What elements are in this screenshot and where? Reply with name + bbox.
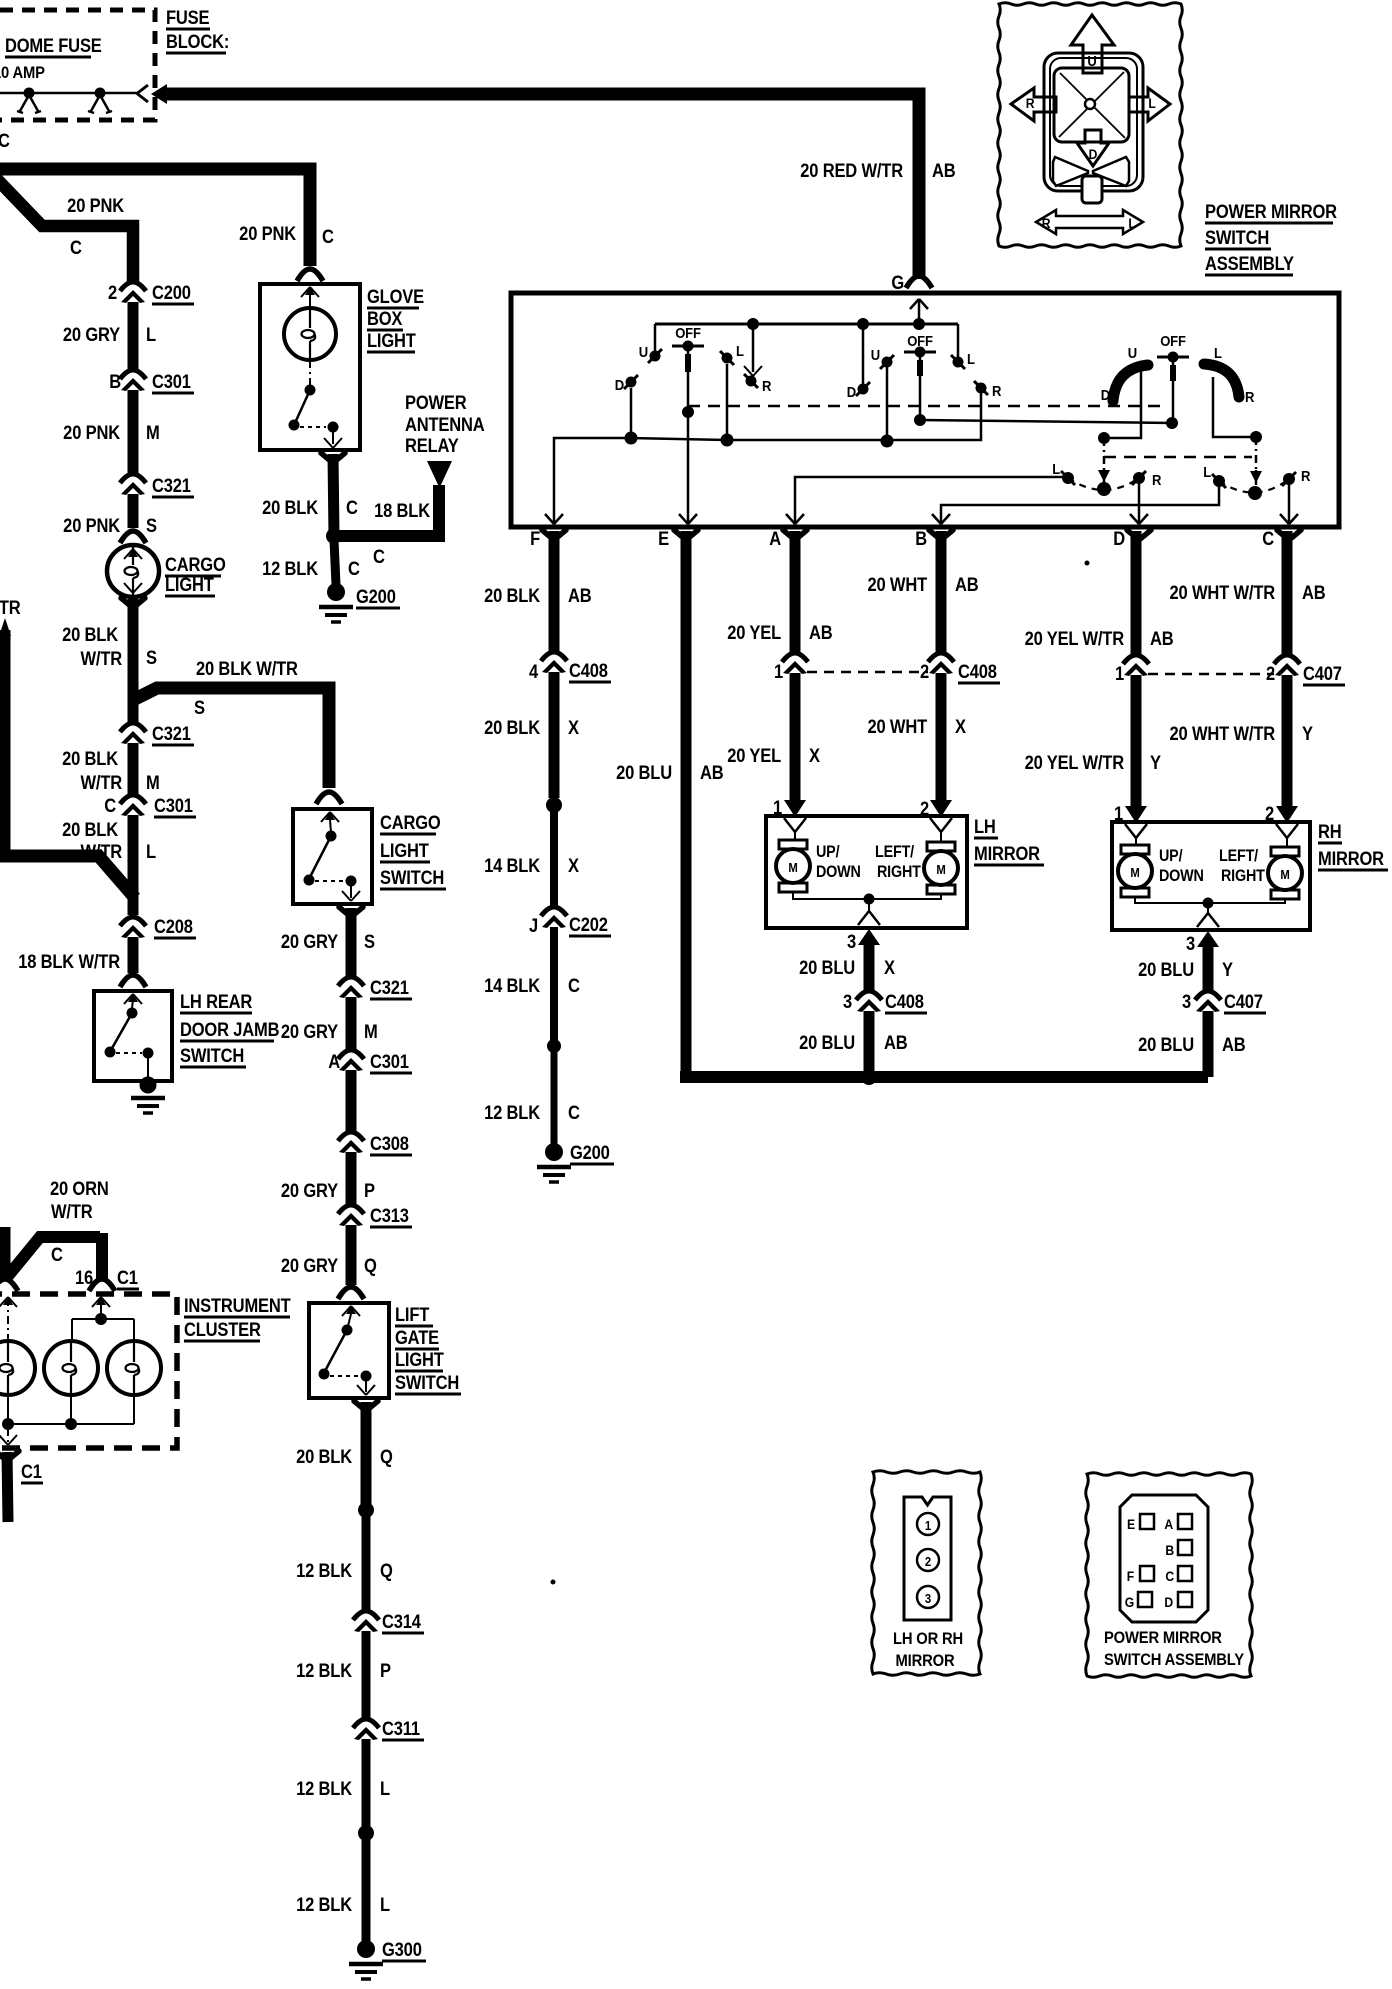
svg-text:L: L [1214,344,1222,361]
svg-text:R: R [1301,467,1310,484]
svg-text:SWITCH: SWITCH [180,1045,244,1066]
feed dot R1 [744,318,762,376]
label 20 BLK X [484,717,579,738]
label 12 BLK L [296,1778,390,1799]
svg-text:A: A [1164,1516,1173,1532]
svg-text:3: 3 [847,931,856,952]
pictorial mirror bowtie [1053,157,1129,203]
svg-text:W/TR: W/TR [80,648,122,669]
G feed arrow inside box [910,299,928,324]
svg-text:Q: Q [364,1255,377,1276]
svg-text:F: F [1127,1568,1134,1584]
svg-text:BOX: BOX [367,308,403,329]
RH motor left/right [1268,838,1302,899]
wiper OFF2 [914,352,926,426]
junction dot glove/relay [326,528,342,544]
svg-text:G200: G200 [570,1142,610,1163]
LH mirror pin funnels [784,818,952,832]
wire selector2 R to C [1280,483,1298,524]
label CARGO LIGHT SWITCH [380,812,446,889]
svg-text:L: L [736,342,744,359]
svg-text:C321: C321 [152,475,191,496]
svg-text:UP/: UP/ [1159,847,1183,865]
svg-text:M: M [936,862,945,877]
svg-text:ASSEMBLY: ASSEMBLY [1205,253,1294,274]
label C (left edge) [0,130,10,151]
label UP/DOWN (RH) [1159,847,1204,885]
svg-text:20 BLK: 20 BLK [484,717,540,738]
wire 20 BLK W/TR L [128,815,139,915]
mech dashed line upper [688,405,1166,408]
svg-text:C301: C301 [154,795,193,816]
svg-text:C301: C301 [370,1051,409,1072]
wire selector2 L to B [932,485,1219,524]
wire below C301 [346,1070,357,1132]
partial circle left edge [0,1243,4,1281]
LH pin3 wire lower [864,1011,875,1071]
label R3 [1245,388,1254,405]
label 20 BLK C [262,497,358,518]
svg-text:U: U [639,343,648,360]
selector1 dashed arc [1068,478,1139,490]
wire 12 BLK L lower [362,1837,371,1943]
svg-text:20 ORN: 20 ORN [50,1178,109,1199]
wire 20 GRY M (switch) [346,997,357,1050]
svg-text:C: C [104,795,116,816]
connector C202 [529,907,611,936]
label C1 below cluster [21,1461,43,1483]
wiper OFF3 [1172,357,1175,420]
wire U2 to bus [886,366,889,441]
label 20 GRY Q [281,1255,377,1276]
svg-text:C: C [0,130,10,151]
label W/TR (left edge) [0,597,21,618]
svg-text:C408: C408 [885,991,924,1012]
label 3 (LH) [847,931,856,952]
svg-text:S: S [146,647,157,668]
LH mirror box [766,816,967,928]
svg-text:C: C [51,1244,63,1265]
wire 20 YEL W/TR Y [1125,675,1147,823]
svg-text:C314: C314 [382,1611,421,1632]
svg-text:C200: C200 [152,282,191,303]
svg-text:20 WHT W/TR: 20 WHT W/TR [1170,723,1276,744]
svg-text:INSTRUMENT: INSTRUMENT [184,1295,291,1316]
svg-text:OFF: OFF [907,332,933,349]
label C (upper) [70,237,82,258]
glove box light box [260,284,360,450]
RH motor commons [1135,897,1285,927]
svg-text:MIRROR: MIRROR [896,1652,956,1670]
label U3 [1128,344,1137,361]
wire 20 BLK AB (F) [549,531,560,652]
svg-text:D: D [847,383,856,400]
svg-text:1: 1 [925,1518,931,1533]
svg-text:RH: RH [1318,821,1342,842]
instrument cluster dashed box [0,1294,177,1448]
connector C301 switch col [328,1050,412,1073]
svg-text:LEFT/: LEFT/ [875,843,915,861]
label 20 YEL W/TR Y [1025,752,1162,773]
label UP/DOWN [816,843,861,881]
label 20 BLU AB (RH3) [1138,1034,1246,1055]
selector2 dashed arc [1219,479,1289,493]
svg-text:LIFT: LIFT [395,1304,429,1325]
stub A at switch box [769,528,807,549]
label 20 BLU X [799,957,895,978]
label 1 (LH pin1) [773,797,782,818]
svg-text:X: X [568,717,579,738]
stray dot [551,561,1090,1585]
label 12 BLK Q [296,1560,393,1581]
wire 20 BLK W/TR S [121,598,145,724]
label 1 (RH pin1) [1114,803,1123,824]
wire 20 RED W/TR feed [151,84,919,279]
svg-text:20 GRY: 20 GRY [281,1180,338,1201]
connector C208 [120,916,196,938]
svg-text:R: R [1026,95,1035,111]
label 20 PNK (upper) [67,195,124,216]
selector2 L contact [1203,463,1226,488]
wire to glove box light [0,169,323,281]
wire D to C407-1 [1131,531,1142,655]
label 18 BLK [374,500,430,521]
svg-text:F: F [530,528,540,549]
svg-text:AB: AB [1302,582,1326,603]
svg-text:20 WHT: 20 WHT [867,716,927,737]
cargo light bulb [107,545,159,597]
LH motor left/right [924,832,958,894]
svg-text:C1: C1 [21,1461,42,1482]
wire L1 to bus [726,364,729,440]
wire 20 BLU AB (E) [680,531,1208,1077]
label C (cluster) [51,1244,63,1265]
svg-text:10 AMP: 10 AMP [0,64,45,82]
contact U1 [639,343,662,363]
svg-text:20 BLU: 20 BLU [616,762,672,783]
label 20 BLK Q [296,1446,393,1467]
svg-text:C407: C407 [1224,991,1263,1012]
svg-text:20 PNK: 20 PNK [63,515,120,536]
feed dot G [913,318,925,330]
wire 20 BLK X [549,672,560,798]
contact R1 [744,374,771,394]
fuse tap 1 [17,88,41,114]
svg-text:LH: LH [974,816,996,837]
label CARGO LIGHT [165,554,226,596]
label 12 BLK C (glove) [262,558,360,579]
svg-text:CARGO: CARGO [165,554,226,575]
svg-text:Q: Q [380,1560,393,1581]
pictorial center pad [1054,68,1129,142]
label 14 BLK X [484,855,579,876]
svg-text:S: S [364,931,375,952]
svg-text:3: 3 [843,991,852,1012]
contact D1 [615,375,638,393]
svg-text:3: 3 [1182,991,1191,1012]
wire 20 ORN W/TR [5,1227,102,1278]
label 20 WHT W/TR Y [1170,723,1314,744]
cluster wiring bottom [0,1395,134,1445]
svg-text:C: C [1262,528,1274,549]
label 12 BLK L lower [296,1894,390,1915]
wire 12 BLK Q [362,1514,371,1610]
svg-text:SWITCH: SWITCH [395,1372,459,1393]
svg-text:14 BLK: 14 BLK [484,975,540,996]
RH pin3 wire lower [1203,1011,1214,1077]
pictorial down arrow D [1077,130,1109,166]
svg-text:MIRROR: MIRROR [974,843,1040,864]
wire 20 GRY L [128,302,139,370]
contact OFF2 [904,332,936,357]
svg-text:20 PNK: 20 PNK [239,223,296,244]
svg-text:CARGO: CARGO [380,812,441,833]
svg-text:20 BLK: 20 BLK [296,1446,352,1467]
wire 12 BLK P [362,1631,371,1718]
svg-text:C407: C407 [1303,663,1342,684]
svg-text:20 BLU: 20 BLU [799,957,855,978]
door jamb ground [131,1077,165,1114]
lift gate light switch box [309,1303,389,1398]
svg-text:C311: C311 [382,1718,420,1739]
svg-text:16: 16 [75,1267,93,1288]
wire C1 below cluster [0,1451,19,1522]
label LH REAR DOOR JAMB SWITCH [180,991,280,1067]
svg-text:2: 2 [925,1554,931,1569]
svg-text:C: C [348,558,360,579]
arc L3-R3 [1204,364,1239,397]
svg-text:20 BLK: 20 BLK [62,748,118,769]
svg-text:D: D [1089,146,1098,162]
svg-text:20 BLU: 20 BLU [1138,1034,1194,1055]
svg-text:C321: C321 [370,977,409,998]
wire 20 PNK M [128,390,139,473]
svg-text:M: M [1280,867,1289,882]
svg-text:X: X [809,745,820,766]
svg-text:P: P [380,1660,391,1681]
svg-text:20 GRY: 20 GRY [63,324,120,345]
label 2 (LH pin2) [920,798,929,819]
svg-text:OFF: OFF [1160,332,1186,349]
label 20 YEL X [727,745,820,766]
pictorial right arrow L [1129,88,1170,121]
svg-text:GLOVE: GLOVE [367,286,424,307]
label 20 GRY L [63,324,156,345]
svg-text:AB: AB [884,1032,908,1053]
wire 20 GRY S (switch) [339,907,363,977]
connector C301 lower [104,795,196,817]
label 20 BLK W/TR M [62,748,159,793]
label 20 BLU AB (E) [616,762,724,783]
connector C321 switch col [338,977,412,999]
label 14 BLK C [484,975,580,996]
svg-text:4: 4 [529,661,538,682]
label 20 PNK M [63,422,159,443]
svg-text:RELAY: RELAY [405,435,459,456]
mirror connector face [904,1497,951,1620]
label LH MIRROR [974,816,1044,865]
svg-text:S: S [194,697,205,718]
svg-text:L: L [146,841,156,862]
svg-text:R: R [1042,215,1051,231]
RH mirror pin funnels [1125,824,1298,838]
svg-text:RIGHT: RIGHT [1221,867,1265,885]
label 20 YEL W/TR AB [1025,628,1174,649]
connector C311 [353,1718,424,1740]
ground G300 [349,1939,426,1979]
svg-text:C: C [373,546,385,567]
svg-text:20 YEL: 20 YEL [727,622,781,643]
svg-text:SWITCH ASSEMBLY: SWITCH ASSEMBLY [1104,1651,1245,1669]
connector C321 lower [120,723,194,745]
svg-text:1: 1 [1115,663,1124,684]
connector C408-2 [920,653,1000,683]
wire L3 arc to pivot2 [1213,377,1262,485]
svg-text:AB: AB [700,762,724,783]
svg-text:U: U [1087,52,1096,69]
svg-text:LIGHT: LIGHT [395,1349,444,1370]
svg-text:BLOCK:: BLOCK: [166,31,229,52]
door jamb switch internals [105,994,154,1078]
svg-text:18 BLK: 18 BLK [374,500,430,521]
svg-text:20 GRY: 20 GRY [281,931,338,952]
fuse block connector chevron [137,85,148,102]
label 18 BLK W/TR [18,951,120,972]
power mirror switch pictorial box [998,3,1183,248]
svg-text:C308: C308 [370,1133,409,1154]
wire to C200 [0,174,133,283]
svg-text:C301: C301 [152,371,191,392]
label POWER MIRROR SWITCH ASSEMBLY [1205,201,1337,275]
pictorial bottom arrow R-L [1036,210,1143,234]
connector C301 [109,370,194,393]
svg-text:2: 2 [108,282,117,303]
dashed link C407 [1148,673,1274,676]
selector1 L contact [1052,460,1075,485]
svg-text:LH REAR: LH REAR [180,991,253,1012]
svg-text:DOWN: DOWN [816,863,861,881]
svg-text:C208: C208 [154,916,193,937]
junction dot F [546,797,562,813]
svg-text:R: R [992,382,1001,399]
switch connector face [1120,1495,1208,1622]
svg-text:C: C [70,237,82,258]
svg-text:L: L [967,350,975,367]
label DOME FUSE [5,35,102,57]
wire 20 BLK Q [354,1401,378,1504]
svg-text:GATE: GATE [395,1327,439,1348]
wire 20 WHT W/TR Y [1276,675,1298,823]
svg-text:R: R [1152,471,1161,488]
label 20 WHT X [867,716,966,737]
svg-text:AB: AB [1222,1034,1246,1055]
svg-text:W/TR: W/TR [0,597,21,618]
svg-text:20 YEL W/TR: 20 YEL W/TR [1025,628,1125,649]
label S (branch) [194,697,205,718]
LH motor up/down [776,832,810,892]
fuse block bus wire [0,92,137,95]
svg-text:12 BLK: 12 BLK [296,1778,352,1799]
label 20 GRY S (switch) [281,931,375,952]
wire 18 BLK W/TR [120,937,146,987]
svg-text:ANTENNA: ANTENNA [405,414,485,435]
switch connector pins [1125,1514,1192,1610]
svg-text:CLUSTER: CLUSTER [184,1319,261,1340]
svg-text:AB: AB [932,160,956,181]
svg-text:B: B [915,528,927,549]
label 20 BLU AB (LH3) [799,1032,908,1053]
svg-text:L: L [380,1894,390,1915]
svg-text:G300: G300 [382,1939,422,1960]
pictorial rounded frame [1044,53,1143,191]
wire 14 BLK X [550,809,558,907]
svg-text:U: U [1128,344,1137,361]
label POWER MIRROR SWITCH ASSEMBLY (detail) [1104,1629,1245,1669]
svg-text:RIGHT: RIGHT [877,863,921,881]
contact U2 [871,346,894,369]
contact D2 [847,382,870,400]
svg-text:A: A [328,1051,340,1072]
svg-text:20 BLK: 20 BLK [262,497,318,518]
svg-text:X: X [955,716,966,737]
wire 20 GRY Q [338,1225,364,1299]
junction dot F2 [547,1039,561,1053]
bus dots [625,432,894,448]
svg-text:LIGHT: LIGHT [367,330,416,351]
connector C408-1 [774,653,808,682]
cargo light switch internals [304,812,361,901]
label 20 BLU Y [1138,959,1233,980]
feed dot D2 [857,318,869,384]
label L3 [1214,344,1222,361]
svg-text:14 BLK: 14 BLK [484,855,540,876]
svg-text:3: 3 [1186,933,1195,954]
svg-text:M: M [364,1021,378,1042]
svg-text:J: J [529,915,538,936]
svg-text:12 BLK: 12 BLK [484,1102,540,1123]
svg-text:MIRROR: MIRROR [1318,848,1384,869]
svg-text:M: M [1130,865,1139,880]
connector C408-3 [843,991,927,1013]
RH mirror box [1112,822,1310,930]
wire 12 BLK L [362,1739,371,1827]
svg-text:DOWN: DOWN [1159,867,1204,885]
wire 20 WHT X [930,673,952,817]
svg-text:C321: C321 [152,723,191,744]
svg-text:X: X [884,957,895,978]
feed drop L2 [957,324,960,358]
LH or RH mirror detail box [872,1471,982,1676]
svg-text:20 GRY: 20 GRY [281,1255,338,1276]
svg-text:LEFT/: LEFT/ [1219,847,1259,865]
label 20 BLK W/TR S [62,624,157,669]
svg-text:G: G [1125,1594,1134,1610]
svg-text:C: C [568,1102,580,1123]
svg-text:LH OR RH: LH OR RH [893,1630,963,1648]
svg-text:L: L [1052,460,1060,477]
svg-text:E: E [1127,1516,1135,1532]
svg-text:12 BLK: 12 BLK [262,558,318,579]
svg-text:U: U [871,346,880,363]
wire 12 BLK C (glove) [334,540,336,585]
connector C407-1 [1115,655,1149,684]
svg-text:W/TR: W/TR [80,772,122,793]
connector C200 [108,282,194,304]
svg-text:P: P [364,1180,375,1201]
wire 20 BLK W/TR M [128,743,139,795]
wire U3 arc to pivot1 [1098,371,1141,484]
LH pin3 wire [858,929,880,991]
